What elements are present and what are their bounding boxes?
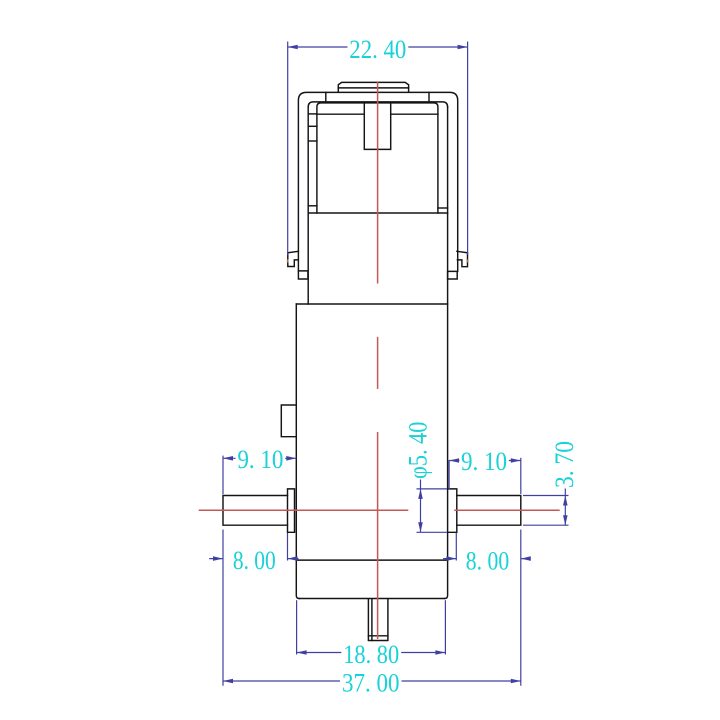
dim line 18.80 <box>297 652 446 654</box>
arrow 22.40 right <box>458 45 468 50</box>
gearbox cover seam <box>296 559 447 561</box>
strap inner top edge <box>308 102 447 107</box>
gearbox top line / motor bottom <box>296 303 447 305</box>
strap left strip tick 1 <box>308 113 317 115</box>
bottom output shaft <box>368 599 388 641</box>
arrow 9.10 right-left <box>449 458 459 463</box>
ext line shaft tip left lower <box>222 530 224 686</box>
right shaft outline <box>457 496 521 526</box>
dim line 37.00 <box>223 680 521 682</box>
arrow 8.00 left outer-right <box>288 556 298 561</box>
arrow 18.80 right <box>435 650 445 655</box>
ext line 22.40 left <box>287 42 289 256</box>
svg-text:37. 00: 37. 00 <box>342 667 400 697</box>
gearbox bottom line <box>299 598 444 600</box>
svg-text:3. 70: 3. 70 <box>549 441 579 488</box>
arrow 8.00 right outer-left <box>446 556 456 561</box>
horizontal center line segment 2 <box>454 509 560 511</box>
motor cap seam right of slot <box>391 113 438 115</box>
svg-text:18. 80: 18. 80 <box>343 639 399 669</box>
strap seam right <box>428 92 430 101</box>
right hook orange tick <box>467 259 469 262</box>
arrow 18.80 left <box>297 650 307 655</box>
right strap foot <box>448 271 458 279</box>
bottom shaft flat line <box>371 599 373 641</box>
left shaft collar <box>288 489 295 532</box>
dim line 9.10 right <box>449 460 521 462</box>
arrow phi5.40 bottom <box>418 522 423 532</box>
svg-text:8. 00: 8. 00 <box>233 545 276 575</box>
ext line 18.80 right <box>444 600 446 654</box>
strap seam left <box>325 92 327 101</box>
dim line 9.10 left <box>223 457 296 459</box>
gearbox left edge with bottom corner <box>296 304 299 599</box>
ext line shaft tip left upper <box>222 456 224 495</box>
arrow 8.00 right outer-right <box>521 556 531 561</box>
svg-text:9. 10: 9. 10 <box>237 444 283 474</box>
right shaft collar <box>448 489 457 532</box>
strap inner right vertical continuing as gearbox right edge <box>445 107 448 599</box>
svg-text:22. 40: 22. 40 <box>349 34 406 64</box>
strap inner left vertical / gear housing joint <box>307 107 309 304</box>
strap left strip tick 3 <box>308 140 317 142</box>
left shaft outline <box>223 496 288 526</box>
motor cap seam left of slot <box>317 113 364 115</box>
strap right strip tick <box>438 207 448 209</box>
svg-text:9. 10: 9. 10 <box>461 446 507 476</box>
dim line 3.70 <box>564 489 566 526</box>
strap left strip tick 4 <box>308 205 317 207</box>
ext line right collar <box>455 533 457 561</box>
ext line 3.70 top <box>523 495 569 497</box>
motor upper body outline <box>317 103 438 213</box>
ext line phi5.40 bottom <box>417 531 447 533</box>
ext line shaft tip right upper <box>520 458 522 494</box>
ext line 18.80 left <box>296 600 298 654</box>
dim line 8.00 right tails <box>443 558 530 560</box>
ext line 3.70 bottom <box>523 524 569 526</box>
horizontal center line segment 1 (shaft axis) <box>199 509 409 511</box>
ext line shaft tip right lower <box>520 530 522 686</box>
arrow 9.10 left-right <box>286 456 296 461</box>
arrow 9.10 left-left <box>223 456 233 461</box>
vertical center line segment 1 (motor axis) <box>377 82 379 284</box>
arrow 9.10 right-right <box>511 458 521 463</box>
motor top cap tab <box>338 82 408 92</box>
svg-text:8. 00: 8. 00 <box>466 546 509 576</box>
ext line phi5.40 top <box>417 488 447 490</box>
vertical center line segment 3 <box>377 432 379 639</box>
left hook orange tick <box>287 259 289 262</box>
arrow 37.00 left <box>223 679 233 684</box>
ext line 9.10 right inner <box>448 460 450 489</box>
strap left strip tick 2 <box>308 125 317 127</box>
motor strap outer contour <box>298 92 457 271</box>
dim line 8.00 left tails <box>209 558 298 560</box>
arrow 3.70 bottom <box>563 515 568 525</box>
motor top cap tab shoulder line <box>338 87 408 89</box>
side terminal tab <box>281 405 296 437</box>
arrow 3.70 top <box>563 496 568 506</box>
left hook of strap <box>288 251 299 266</box>
arrow 37.00 right <box>511 679 521 684</box>
motor flange line <box>308 212 447 214</box>
right hook of strap <box>457 251 468 266</box>
arrow 8.00 left outer-left <box>213 556 223 561</box>
left strap foot <box>298 271 308 279</box>
ext line 22.40 right <box>467 42 469 255</box>
arrow 22.40 left <box>288 45 298 50</box>
dim line 22.40 <box>288 46 468 48</box>
ext line left collar <box>287 533 289 561</box>
bottom shaft cap line <box>368 635 388 637</box>
svg-text:φ5. 40: φ5. 40 <box>403 422 433 479</box>
dim line phi5.40 <box>420 480 422 533</box>
vertical center line segment 2 <box>377 337 379 389</box>
motor shaft slot <box>364 103 390 149</box>
arrow phi5.40 top <box>418 489 423 499</box>
